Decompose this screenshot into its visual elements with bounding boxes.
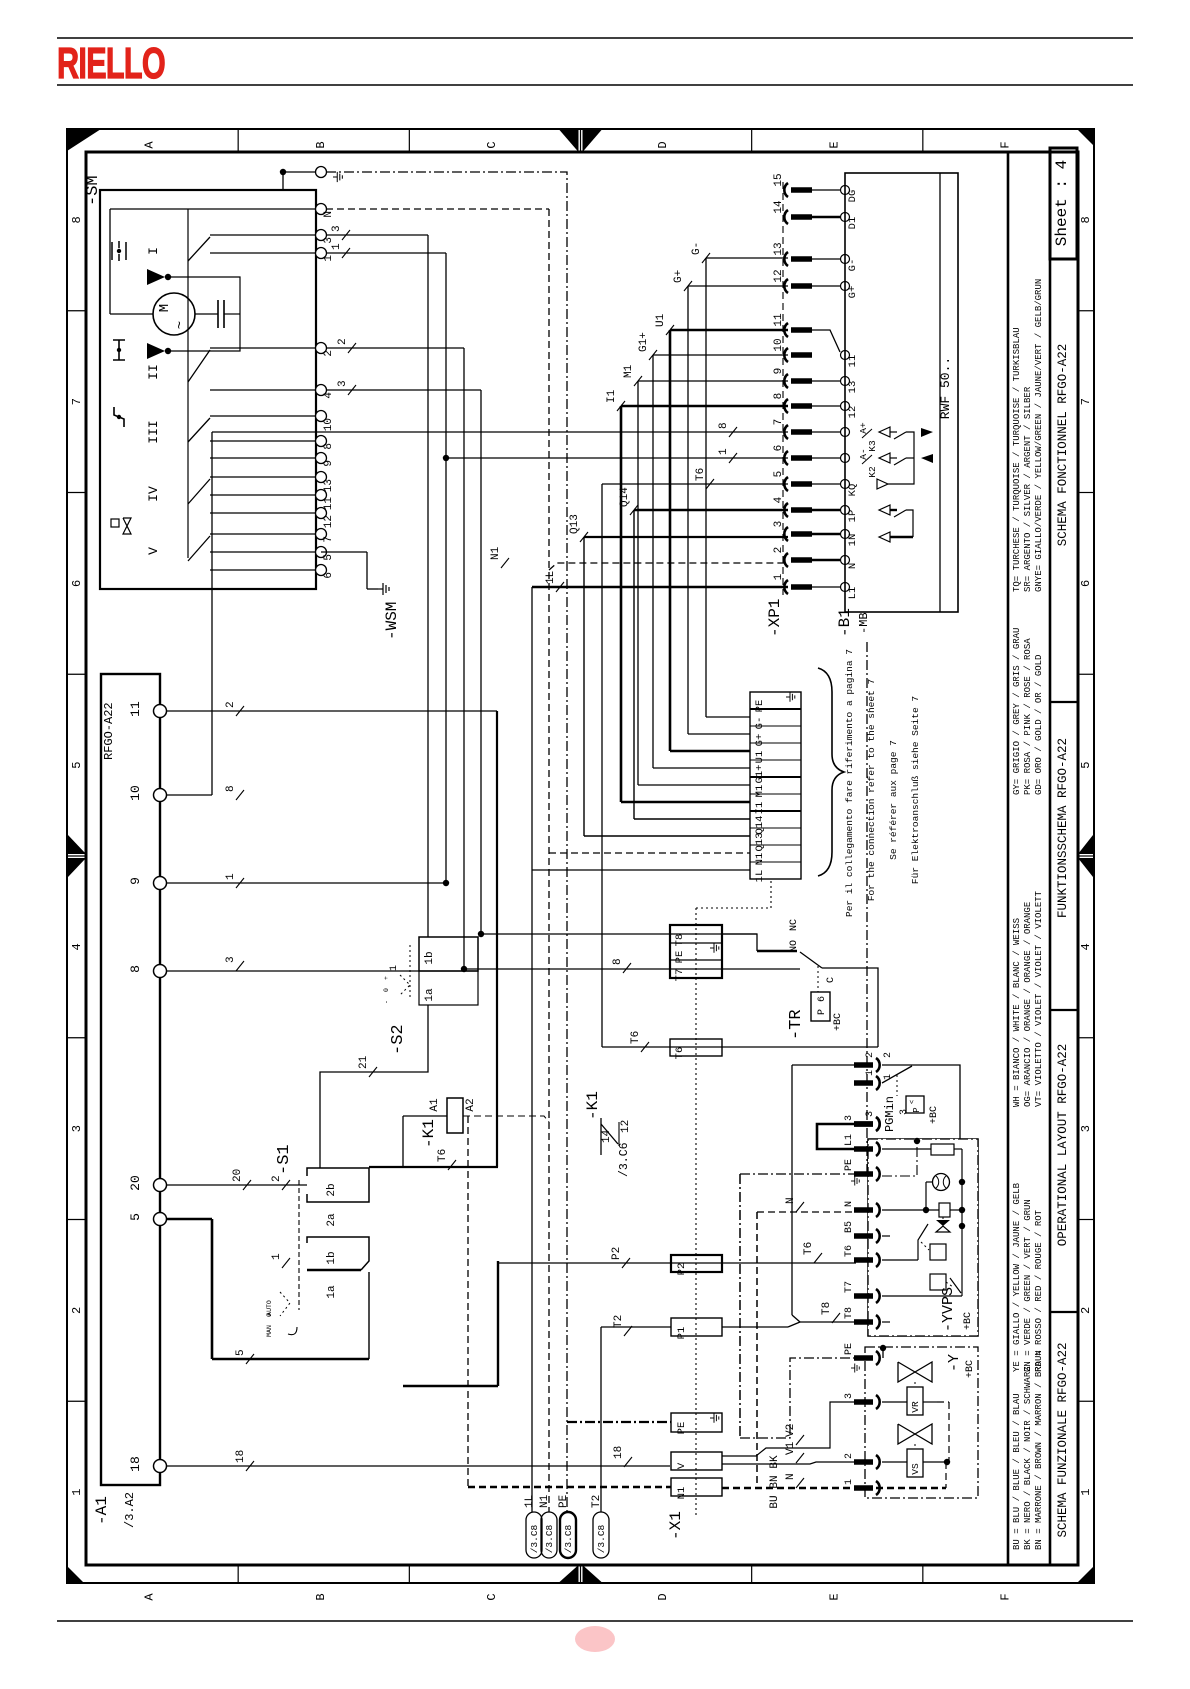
svg-text:P: P — [817, 1009, 828, 1015]
svg-text:MAN: MAN — [266, 1325, 273, 1337]
svg-text:NO: NO — [789, 940, 800, 952]
svg-text:/3.C8: /3.C8 — [596, 1524, 607, 1553]
svg-text:2: 2 — [844, 1453, 855, 1459]
svg-text:U1: U1 — [754, 751, 766, 764]
svg-text:GD= ORO / GOLD / OR / GOLD: GD= ORO / GOLD / OR / GOLD — [1034, 655, 1044, 795]
svg-text:1: 1 — [844, 1479, 855, 1485]
svg-text:N: N — [847, 563, 859, 569]
svg-text:1b: 1b — [424, 951, 436, 964]
svg-text:1L: 1L — [524, 1495, 536, 1508]
svg-text:13: 13 — [773, 242, 785, 255]
svg-text:1b: 1b — [326, 1251, 338, 1264]
svg-text:10: 10 — [773, 338, 785, 351]
svg-text:VT= VIOLETTO / VIOLET / VIOLET: VT= VIOLETTO / VIOLET / VIOLET / VIOLETT — [1034, 890, 1044, 1107]
svg-text:3: 3 — [337, 380, 349, 387]
svg-text:M1: M1 — [754, 785, 766, 798]
svg-text:3: 3 — [323, 237, 335, 244]
svg-text:/3.C8: /3.C8 — [563, 1524, 574, 1553]
svg-text:L1: L1 — [844, 1134, 855, 1146]
svg-text:-TR: -TR — [787, 1009, 806, 1040]
svg-text:18: 18 — [235, 1450, 247, 1463]
svg-text:P1: P1 — [676, 1327, 688, 1340]
svg-text:8: 8 — [225, 785, 237, 792]
svg-text:1: 1 — [773, 573, 785, 580]
svg-text:BN: BN — [769, 1475, 781, 1488]
svg-text:E: E — [827, 141, 841, 148]
svg-text:1: 1 — [70, 1489, 84, 1496]
svg-text:1a: 1a — [326, 1285, 338, 1299]
svg-text:T8: T8 — [674, 934, 686, 947]
svg-text:RD = ROSSO / RED / ROUGE / ROT: RD = ROSSO / RED / ROUGE / ROT — [1034, 1209, 1044, 1372]
svg-text:G1+: G1+ — [754, 765, 766, 784]
svg-text:G1+: G1+ — [638, 332, 650, 352]
svg-text:A: A — [143, 141, 157, 149]
svg-text:9: 9 — [773, 368, 785, 375]
svg-text:1: 1 — [865, 1070, 876, 1076]
svg-text:N1: N1 — [490, 546, 502, 560]
svg-text:N: N — [785, 1473, 797, 1480]
svg-text:3: 3 — [899, 1109, 910, 1115]
svg-text:F: F — [998, 1593, 1012, 1600]
svg-text:-K1: -K1 — [584, 1091, 602, 1120]
svg-text:Q13: Q13 — [754, 833, 766, 852]
svg-text:GNYE= GIALLO/VERDE / YELLOW/GR: GNYE= GIALLO/VERDE / YELLOW/GREEN / JAUN… — [1034, 279, 1044, 592]
svg-text:1: 1 — [718, 448, 730, 455]
svg-text:3: 3 — [225, 956, 237, 963]
svg-text:T7: T7 — [844, 1281, 855, 1293]
svg-text:L1: L1 — [847, 587, 859, 600]
svg-text:/3.C6: /3.C6 — [618, 1142, 631, 1177]
svg-text:<: < — [909, 1100, 917, 1104]
svg-text:V: V — [676, 1462, 688, 1469]
svg-text:2: 2 — [865, 1052, 876, 1058]
svg-text:III: III — [146, 420, 161, 443]
svg-text:PGMin: PGMin — [883, 1096, 897, 1132]
svg-text:PE: PE — [754, 700, 766, 713]
svg-text:A2: A2 — [465, 1098, 477, 1111]
svg-text:3: 3 — [865, 1111, 876, 1117]
svg-text:Q14: Q14 — [619, 487, 631, 507]
svg-text:2b: 2b — [326, 1183, 338, 1196]
svg-text:3: 3 — [70, 1125, 84, 1132]
svg-text:4: 4 — [323, 392, 335, 399]
svg-text:6: 6 — [323, 572, 335, 579]
svg-text:G+: G+ — [673, 270, 685, 283]
svg-text:5: 5 — [128, 1213, 143, 1221]
svg-text:8: 8 — [323, 443, 335, 450]
svg-text:OG= ARANCIO / ORANGE / ORANGE: OG= ARANCIO / ORANGE / ORANGE / ORANGE — [1023, 902, 1033, 1107]
svg-text:WH = BIANCO / WHITE / BLANC /: WH = BIANCO / WHITE / BLANC / WEISS — [1012, 918, 1022, 1107]
svg-text:Per il collegamento fare rifer: Per il collegamento fare riferimento a p… — [844, 649, 855, 917]
svg-text:B5: B5 — [844, 1221, 855, 1233]
svg-text:-K1: -K1 — [420, 1119, 438, 1148]
svg-text:1L: 1L — [545, 571, 557, 584]
svg-text:T2: T2 — [591, 1495, 603, 1508]
svg-text:8: 8 — [612, 958, 624, 965]
svg-text:11: 11 — [847, 355, 859, 368]
svg-text:A+: A+ — [858, 422, 869, 434]
svg-text:T2: T2 — [613, 1315, 625, 1328]
svg-text:18: 18 — [613, 1446, 625, 1459]
svg-text:-SM: -SM — [84, 175, 103, 206]
svg-text:-XP1: -XP1 — [766, 599, 784, 637]
svg-text:11: 11 — [128, 701, 143, 717]
svg-text:1N: 1N — [847, 534, 859, 547]
svg-text:5: 5 — [70, 762, 84, 769]
svg-text:8: 8 — [70, 216, 84, 223]
svg-text:T6: T6 — [695, 468, 707, 481]
svg-text:T8: T8 — [844, 1307, 855, 1319]
svg-text:4: 4 — [1079, 943, 1093, 950]
svg-text:GY= GRIGIO / GREY / GRIS / GRA: GY= GRIGIO / GREY / GRIS / GRAU — [1012, 628, 1022, 795]
svg-text:G-: G- — [754, 717, 766, 730]
svg-text:C: C — [485, 1593, 499, 1600]
svg-text:T6: T6 — [844, 1245, 855, 1257]
svg-text:5: 5 — [323, 554, 335, 561]
svg-text:8: 8 — [128, 965, 143, 973]
svg-text:P2: P2 — [676, 1263, 688, 1276]
svg-text:+BC: +BC — [929, 1106, 940, 1124]
svg-text:B: B — [314, 141, 328, 148]
svg-text:1a: 1a — [424, 988, 436, 1002]
svg-text:3: 3 — [844, 1393, 855, 1399]
svg-text:+BC: +BC — [963, 1312, 974, 1330]
svg-text:D1: D1 — [847, 217, 859, 230]
svg-text:C: C — [826, 977, 837, 983]
svg-text:BK = NERO / BLACK / NOIR / SCH: BK = NERO / BLACK / NOIR / SCHWARZ — [1023, 1366, 1033, 1550]
svg-text:20: 20 — [128, 1175, 143, 1191]
svg-text:N: N — [785, 1197, 797, 1204]
svg-text:RWF 50..: RWF 50.. — [938, 357, 953, 419]
svg-text:BN = MARRONE / BROWN / MARRON: BN = MARRONE / BROWN / MARRON / BRAUN — [1034, 1350, 1044, 1550]
svg-text:11: 11 — [323, 497, 335, 511]
svg-text:0: 0 — [383, 988, 390, 992]
svg-text:-X1: -X1 — [667, 1511, 685, 1540]
svg-text:9: 9 — [128, 877, 143, 885]
svg-text:A-: A- — [858, 448, 869, 459]
svg-text:G+: G+ — [847, 286, 859, 299]
svg-text:T6: T6 — [630, 1031, 642, 1044]
svg-text:V: V — [146, 547, 161, 555]
svg-text:K2: K2 — [867, 466, 878, 478]
svg-text:4: 4 — [773, 496, 785, 503]
svg-text:-S2: -S2 — [389, 1024, 408, 1055]
svg-text:3: 3 — [331, 225, 343, 232]
svg-text:3: 3 — [773, 521, 785, 528]
svg-text:2: 2 — [1079, 1307, 1093, 1314]
svg-text:7: 7 — [323, 536, 335, 543]
svg-text:1: 1 — [1079, 1489, 1093, 1496]
svg-text:8: 8 — [718, 422, 730, 429]
svg-text:TQ= TURCHESE / TURQUOISE / TUR: TQ= TURCHESE / TURQUOISE / TURQUOISE / T… — [1012, 327, 1022, 592]
svg-text:T7: T7 — [674, 969, 686, 982]
svg-text:N: N — [323, 211, 335, 218]
svg-text:7: 7 — [70, 398, 84, 405]
svg-text:BK: BK — [769, 1455, 781, 1469]
svg-text:1: 1 — [331, 243, 343, 250]
svg-text:~: ~ — [173, 321, 189, 329]
svg-text:For the connection refer to th: For the connection refer to the sheet 7 — [866, 679, 877, 901]
svg-text:B: B — [314, 1593, 328, 1600]
svg-text:Se référer aux page 7: Se référer aux page 7 — [888, 740, 899, 860]
svg-text:15: 15 — [773, 173, 785, 186]
svg-text:1: 1 — [323, 255, 335, 262]
svg-text:7: 7 — [1079, 398, 1093, 405]
svg-text:OPERATIONAL LAYOUT RFGO-A22: OPERATIONAL LAYOUT RFGO-A22 — [1056, 1044, 1070, 1247]
svg-text:SCHEMA FONCTIONNEL RFGO-A22: SCHEMA FONCTIONNEL RFGO-A22 — [1056, 344, 1070, 547]
svg-text:I1: I1 — [606, 389, 618, 403]
svg-text:BU = BLU / BLUE / BLEU / BLAU: BU = BLU / BLUE / BLEU / BLAU — [1012, 1393, 1022, 1550]
svg-text:10: 10 — [128, 785, 143, 801]
svg-text:Q13: Q13 — [569, 514, 581, 534]
svg-text:2: 2 — [70, 1307, 84, 1314]
svg-text:6: 6 — [70, 580, 84, 587]
svg-text:12: 12 — [773, 269, 785, 282]
svg-text:6: 6 — [817, 996, 828, 1002]
svg-text:N1: N1 — [676, 1487, 688, 1500]
svg-text:II: II — [146, 364, 161, 380]
svg-text:/3.C8: /3.C8 — [544, 1524, 555, 1553]
svg-text:SR= ARGENTO / SILVER / ARGENT: SR= ARGENTO / SILVER / ARGENT / SILBER — [1023, 386, 1033, 592]
svg-text:-WSM: -WSM — [383, 602, 401, 640]
svg-text:-A1: -A1 — [93, 1496, 111, 1525]
svg-text:-Y: -Y — [946, 1354, 963, 1372]
svg-text:N: N — [844, 1201, 855, 1207]
svg-text:PK= ROSA / PINK / ROSE / ROSA: PK= ROSA / PINK / ROSE / ROSA — [1023, 638, 1033, 795]
svg-text:Q14: Q14 — [754, 816, 766, 835]
svg-text:9: 9 — [323, 460, 335, 467]
svg-text:3: 3 — [1079, 1125, 1093, 1132]
svg-text:F: F — [998, 141, 1012, 148]
svg-text:VS: VS — [910, 1463, 921, 1475]
svg-text:0: 0 — [266, 1313, 273, 1317]
svg-text:1L: 1L — [754, 870, 766, 883]
svg-text:T6: T6 — [674, 1047, 686, 1060]
svg-text:Sheet : 4: Sheet : 4 — [1053, 160, 1071, 246]
svg-text:-YVPS: -YVPS — [940, 1287, 957, 1332]
svg-text:A: A — [143, 1593, 157, 1601]
svg-text:G+: G+ — [754, 734, 766, 747]
svg-text:12: 12 — [323, 515, 335, 528]
svg-text:2a: 2a — [326, 1213, 338, 1227]
svg-text:U1: U1 — [655, 313, 667, 327]
svg-text:I: I — [146, 247, 161, 255]
svg-text:FUNKTIONSSCHEMA RFGO-A22: FUNKTIONSSCHEMA RFGO-A22 — [1056, 738, 1070, 918]
svg-text:PE: PE — [674, 951, 686, 964]
svg-text:M: M — [157, 304, 173, 312]
svg-text:5: 5 — [1079, 762, 1093, 769]
svg-text:T6: T6 — [803, 1242, 815, 1255]
svg-text:VR: VR — [910, 1401, 921, 1413]
svg-text:IV: IV — [146, 486, 161, 502]
svg-text:N1: N1 — [754, 853, 766, 866]
svg-text:14: 14 — [601, 1129, 613, 1143]
svg-text:PE: PE — [844, 1159, 855, 1171]
svg-text:GN = VERDE / GREEN / VERT / GR: GN = VERDE / GREEN / VERT / GRUN — [1023, 1199, 1033, 1372]
svg-text:2: 2 — [883, 1052, 894, 1058]
svg-text:14: 14 — [773, 200, 785, 214]
svg-text:N1: N1 — [539, 1494, 551, 1508]
svg-text:+BC: +BC — [833, 1013, 844, 1031]
svg-text:-MB: -MB — [857, 612, 871, 634]
svg-text:D: D — [656, 141, 670, 148]
svg-text:21: 21 — [358, 1055, 370, 1069]
svg-text:4: 4 — [70, 943, 84, 950]
svg-text:+BC: +BC — [965, 1360, 976, 1378]
svg-text:2: 2 — [323, 350, 335, 357]
svg-text:+: + — [383, 976, 390, 980]
svg-text:1: 1 — [271, 1253, 283, 1260]
svg-text:1: 1 — [225, 873, 237, 880]
svg-text:5: 5 — [773, 471, 785, 478]
svg-text:Für Elektroanschluß siehe Seit: Für Elektroanschluß siehe Seite 7 — [910, 696, 921, 884]
svg-text:10: 10 — [323, 418, 335, 431]
svg-text:-B1: -B1 — [836, 608, 854, 637]
svg-text:2: 2 — [271, 1175, 283, 1182]
svg-text:11: 11 — [773, 313, 785, 327]
svg-text:2: 2 — [225, 701, 237, 708]
svg-text:G-: G- — [691, 242, 703, 255]
svg-text:6: 6 — [1079, 580, 1093, 587]
svg-text:18: 18 — [128, 1456, 143, 1472]
svg-text:I1: I1 — [754, 802, 766, 815]
svg-text:20: 20 — [232, 1169, 244, 1182]
svg-text:12: 12 — [620, 1120, 632, 1133]
svg-text:7: 7 — [773, 419, 785, 426]
svg-text:2: 2 — [773, 547, 785, 554]
svg-text:-S1: -S1 — [275, 1144, 294, 1175]
svg-text:6: 6 — [773, 445, 785, 452]
svg-text:T6: T6 — [437, 1149, 449, 1162]
svg-text:C: C — [485, 141, 499, 148]
svg-text:YE = GIALLO / YELLOW / JAUNE /: YE = GIALLO / YELLOW / JAUNE / GELB — [1012, 1182, 1022, 1372]
svg-text:PE: PE — [844, 1343, 855, 1355]
svg-text:PE: PE — [676, 1422, 688, 1435]
svg-text:RFGO-A22: RFGO-A22 — [102, 702, 116, 760]
svg-text:/3.C8: /3.C8 — [529, 1524, 540, 1553]
svg-text:SCHEMA FUNZIONALE RFGO-A22: SCHEMA FUNZIONALE RFGO-A22 — [1056, 1342, 1070, 1537]
svg-text:8: 8 — [1079, 216, 1093, 223]
svg-text:T8: T8 — [821, 1302, 833, 1315]
svg-text:DG: DG — [847, 190, 859, 203]
svg-text:5: 5 — [235, 1349, 247, 1356]
svg-text:/3.A2: /3.A2 — [123, 1492, 137, 1528]
svg-text:13: 13 — [847, 381, 859, 394]
svg-text:V2: V2 — [785, 1424, 797, 1437]
svg-text:NC: NC — [789, 919, 800, 931]
svg-text:M1: M1 — [623, 364, 635, 378]
svg-text:KQ: KQ — [847, 484, 859, 497]
svg-text:D: D — [656, 1593, 670, 1600]
svg-text:BU: BU — [769, 1495, 781, 1508]
svg-text:2: 2 — [337, 338, 349, 345]
svg-text:12: 12 — [847, 406, 859, 419]
svg-text:3: 3 — [844, 1115, 855, 1121]
svg-text:1P: 1P — [847, 510, 859, 523]
svg-text:P2: P2 — [611, 1247, 623, 1260]
svg-text:PE: PE — [558, 1494, 570, 1508]
svg-text:A1: A1 — [429, 1098, 441, 1112]
svg-text:G-: G- — [847, 259, 859, 272]
svg-text:1: 1 — [389, 965, 400, 971]
svg-text:P: P — [912, 1107, 922, 1112]
svg-text:-: - — [383, 1000, 390, 1004]
svg-text:RIELLO: RIELLO — [57, 39, 165, 88]
svg-text:E: E — [827, 1593, 841, 1600]
svg-text:8: 8 — [773, 393, 785, 400]
